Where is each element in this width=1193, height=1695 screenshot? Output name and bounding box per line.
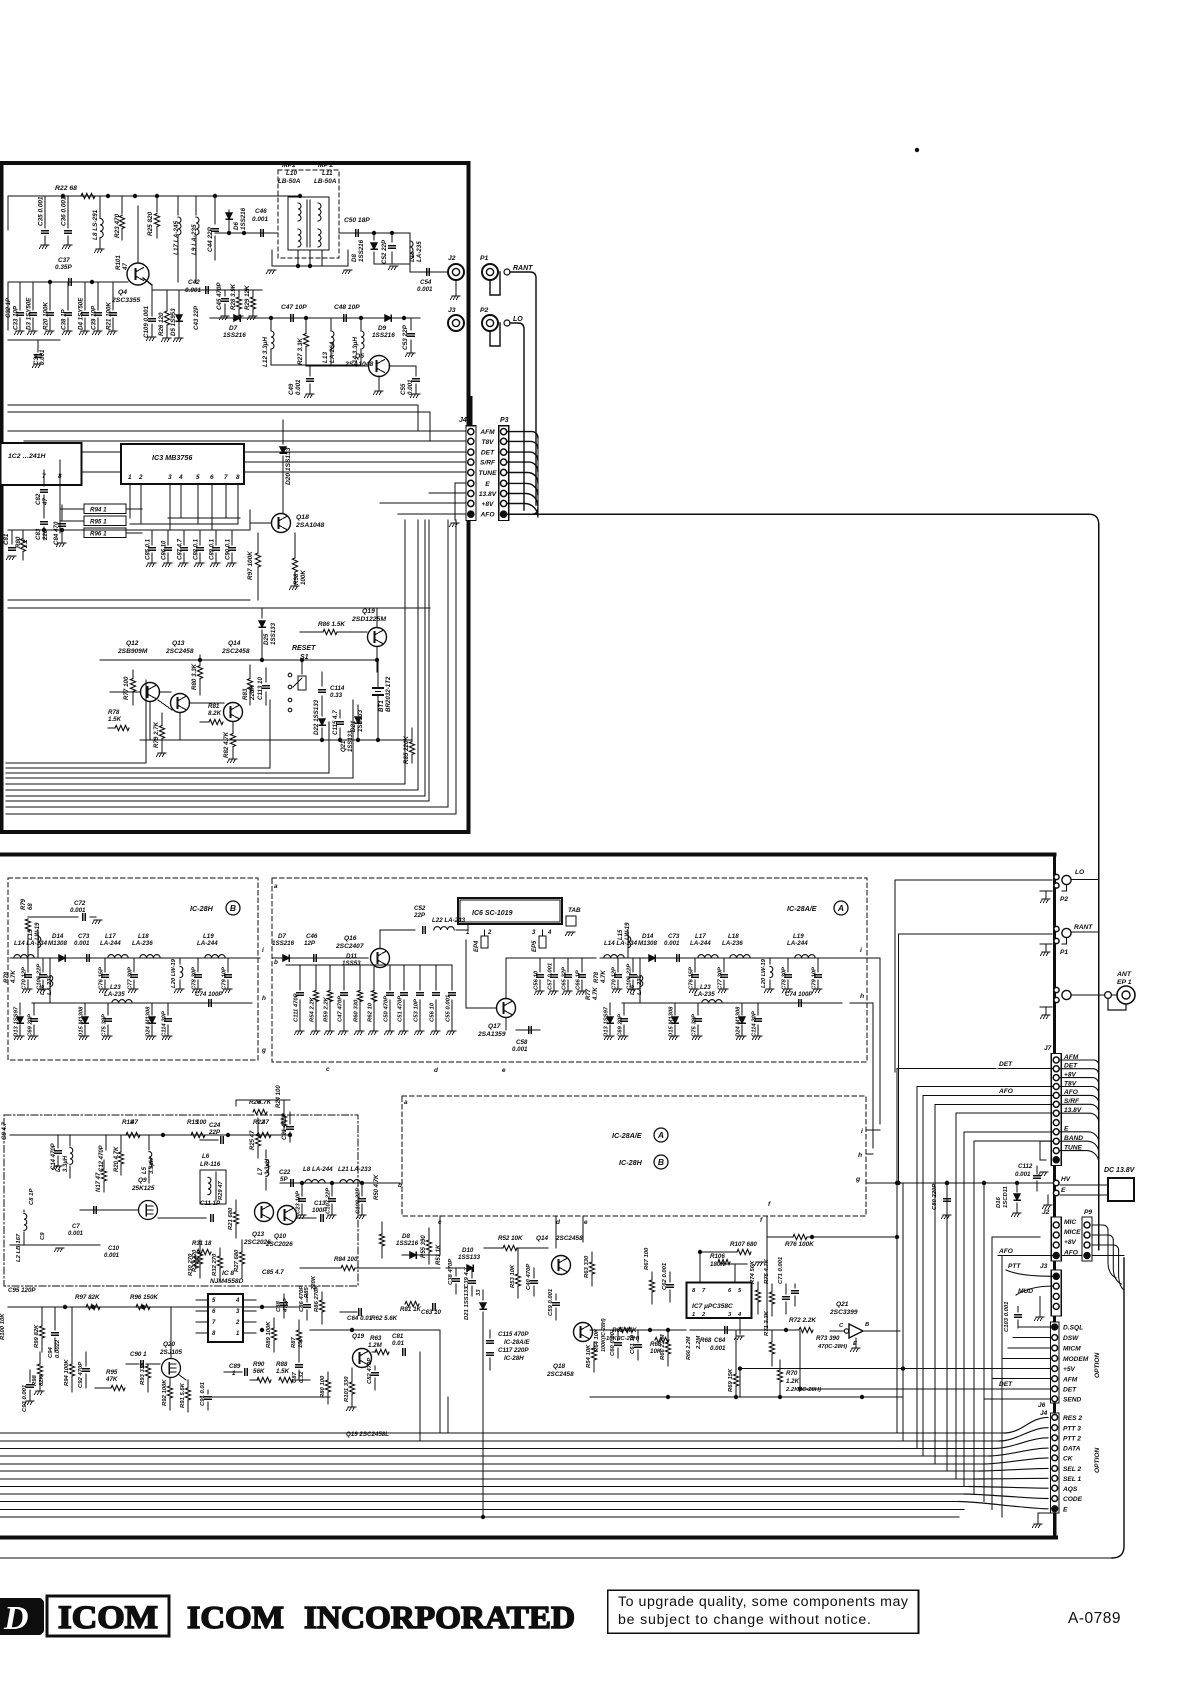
svg-text:D10: D10 — [462, 1247, 474, 1254]
svg-text:+8V: +8V — [1064, 1239, 1077, 1246]
svg-text:1: 1 — [128, 474, 132, 481]
svg-text:R73 390: R73 390 — [816, 1335, 840, 1342]
svg-text:SEL 1: SEL 1 — [1063, 1476, 1082, 1483]
svg-text:D16: D16 — [996, 1196, 1002, 1208]
svg-text:BT1: BT1 — [378, 700, 385, 712]
svg-text:R85: R85 — [304, 1286, 310, 1298]
svg-text:E: E — [1063, 1506, 1068, 1513]
svg-text:LA-235: LA-235 — [637, 975, 643, 995]
svg-text:Q13: Q13 — [252, 1231, 265, 1238]
svg-text:R50 4.7K: R50 4.7K — [374, 1174, 380, 1200]
svg-text:d: d — [434, 1067, 439, 1074]
svg-text:P3: P3 — [500, 417, 509, 424]
svg-text:J4: J4 — [459, 417, 467, 424]
svg-text:C43 22P: C43 22P — [193, 305, 200, 330]
svg-text:C10: C10 — [108, 1246, 120, 1252]
svg-text:e: e — [584, 1219, 588, 1226]
svg-text:DET: DET — [481, 450, 495, 457]
svg-text:L17: L17 — [695, 933, 706, 940]
svg-text:IC-28H: IC-28H — [504, 1355, 524, 1362]
svg-text:R55 390: R55 390 — [421, 1235, 427, 1258]
svg-text:NJM4558D: NJM4558D — [210, 1278, 244, 1285]
svg-text:INCORPORATED: INCORPORATED — [304, 1599, 575, 1635]
svg-text:C54: C54 — [420, 279, 432, 286]
svg-text:22P: 22P — [413, 912, 426, 919]
svg-text:R27 3.3K: R27 3.3K — [297, 338, 304, 365]
svg-text:C40 470P: C40 470P — [526, 1264, 532, 1290]
svg-text:C46: C46 — [306, 933, 318, 940]
svg-text:D8: D8 — [351, 254, 358, 262]
svg-text:1SS216: 1SS216 — [240, 207, 247, 230]
svg-text:R24 100: R24 100 — [276, 1085, 282, 1108]
svg-text:R107 680: R107 680 — [730, 1241, 757, 1248]
svg-text:L19: L19 — [793, 933, 804, 940]
svg-text:P1: P1 — [480, 255, 489, 262]
svg-text:SEND: SEND — [1063, 1396, 1082, 1403]
svg-text:R81 1K: R81 1K — [400, 1306, 422, 1313]
svg-text:R20 4.7K: R20 4.7K — [114, 1146, 120, 1172]
svg-text:R62 5.6K: R62 5.6K — [371, 1315, 398, 1322]
svg-text:C82 470P: C82 470P — [367, 1358, 373, 1384]
svg-text:D9: D9 — [378, 325, 387, 332]
svg-text:R82 4.7K: R82 4.7K — [223, 731, 230, 758]
svg-text:E: E — [485, 481, 490, 488]
svg-text:LA-235: LA-235 — [47, 975, 53, 995]
svg-text:B: B — [658, 1157, 664, 1167]
svg-text:Q5: Q5 — [355, 353, 364, 360]
svg-text:2SC3355: 2SC3355 — [111, 297, 141, 304]
svg-text:AFO: AFO — [998, 1248, 1014, 1255]
svg-text:D15 M1308: D15 M1308 — [669, 1006, 675, 1037]
svg-text:0.35P: 0.35P — [55, 264, 72, 271]
svg-text:R77: R77 — [586, 988, 592, 1000]
svg-text:2SC2458: 2SC2458 — [165, 648, 194, 655]
svg-text:LA-244: LA-244 — [690, 940, 711, 947]
svg-text:+8V: +8V — [482, 501, 495, 508]
svg-text:D15 M1308: D15 M1308 — [79, 1006, 85, 1037]
svg-text:L16: L16 — [40, 984, 46, 995]
svg-text:R69 15K: R69 15K — [728, 1368, 734, 1392]
svg-text:Q14: Q14 — [536, 1235, 549, 1242]
svg-text:SEL 2: SEL 2 — [1063, 1466, 1082, 1473]
svg-text:1SS216: 1SS216 — [358, 239, 365, 262]
svg-text:C46: C46 — [255, 208, 267, 215]
svg-text:R71 3.3K: R71 3.3K — [764, 1310, 770, 1336]
svg-text:C55: C55 — [400, 383, 407, 395]
svg-text:LA-244: LA-244 — [100, 940, 121, 947]
svg-text:R60 330: R60 330 — [354, 999, 360, 1022]
svg-text:C53 10P: C53 10P — [414, 999, 420, 1022]
svg-text:R66 2.2M: R66 2.2M — [686, 1336, 692, 1360]
svg-text:47: 47 — [261, 1119, 269, 1126]
svg-text:R77 100: R77 100 — [123, 676, 130, 700]
svg-text:B: B — [865, 1322, 869, 1328]
svg-text:L12 3.3µH: L12 3.3µH — [262, 337, 269, 367]
svg-text:C50 470P: C50 470P — [384, 996, 390, 1022]
svg-text:C78 30P: C78 30P — [782, 967, 788, 990]
svg-text:D7: D7 — [229, 325, 238, 332]
svg-text:47(IC-28H): 47(IC-28H) — [817, 1344, 847, 1350]
svg-text:J3: J3 — [1040, 1263, 1048, 1270]
svg-text:RESET: RESET — [292, 645, 316, 652]
svg-text:R92 100K: R92 100K — [162, 1379, 168, 1406]
svg-text:2SC3399: 2SC3399 — [829, 1309, 858, 1316]
svg-text:R78: R78 — [108, 709, 120, 716]
svg-text:L23: L23 — [110, 984, 121, 991]
svg-text:J4: J4 — [1040, 1410, 1048, 1417]
svg-text:B: B — [230, 903, 236, 913]
svg-text:J6: J6 — [1038, 1402, 1046, 1409]
svg-text:1.2K: 1.2K — [786, 1378, 800, 1385]
svg-text:L2 LB-167: L2 LB-167 — [16, 1233, 22, 1262]
svg-text:C72: C72 — [74, 900, 86, 907]
svg-text:47: 47 — [42, 498, 49, 506]
svg-text:L3: L3 — [56, 1164, 62, 1172]
svg-text:c: c — [326, 1066, 330, 1073]
svg-text:D24 M1308: D24 M1308 — [736, 1006, 742, 1037]
svg-text:0.001: 0.001 — [74, 940, 90, 947]
svg-text:4.7K: 4.7K — [601, 970, 607, 984]
svg-text:2SD1225M: 2SD1225M — [351, 616, 386, 623]
svg-text:D11: D11 — [346, 953, 357, 960]
svg-text:C12 470P: C12 470P — [99, 1144, 105, 1172]
svg-text:C84 470: C84 470 — [53, 521, 60, 545]
svg-text:0.001: 0.001 — [68, 1231, 84, 1237]
svg-text:C75 39P: C75 39P — [692, 1014, 698, 1037]
svg-text:R94 100K: R94 100K — [64, 1359, 70, 1386]
svg-text:1: 1 — [466, 930, 470, 936]
svg-text:R63 330: R63 330 — [584, 1255, 590, 1278]
svg-text:J3: J3 — [448, 307, 456, 314]
svg-text:R79 2.7K: R79 2.7K — [153, 721, 160, 748]
svg-text:C75 39P: C75 39P — [102, 1014, 108, 1037]
svg-text:C79 10P: C79 10P — [812, 967, 818, 990]
svg-text:HV: HV — [1061, 1176, 1071, 1183]
svg-text:C39 10P: C39 10P — [91, 305, 98, 330]
svg-text:C63 10: C63 10 — [421, 1309, 442, 1316]
svg-text:C111 470P: C111 470P — [294, 993, 300, 1022]
svg-text:ICOM: ICOM — [187, 1599, 284, 1635]
svg-text:C89 0.1: C89 0.1 — [210, 538, 216, 560]
svg-text:R101 330: R101 330 — [344, 1376, 350, 1402]
svg-text:C94: C94 — [48, 1346, 54, 1358]
svg-text:MIC: MIC — [1064, 1219, 1076, 1226]
svg-text:1SS216: 1SS216 — [223, 332, 246, 339]
svg-text:R97 82K: R97 82K — [75, 1294, 100, 1301]
svg-text:C115 470P: C115 470P — [498, 1331, 529, 1338]
svg-text:OPTION: OPTION — [1094, 1447, 1101, 1473]
svg-text:R52 10K: R52 10K — [498, 1235, 523, 1242]
svg-text:33: 33 — [476, 1289, 482, 1296]
svg-text:4.7K: 4.7K — [11, 970, 17, 984]
svg-text:A: A — [657, 1130, 664, 1140]
svg-text:C61 10: C61 10 — [630, 1334, 636, 1354]
svg-text:R30 270: R30 270 — [188, 1253, 194, 1276]
svg-text:D20 1SS133: D20 1SS133 — [285, 447, 292, 485]
svg-text:R98: R98 — [293, 573, 300, 585]
svg-text:IC-28A/E: IC-28A/E — [787, 904, 817, 913]
svg-text:1SS53: 1SS53 — [342, 960, 361, 967]
svg-text:R99 82K: R99 82K — [34, 1324, 40, 1348]
svg-text:R94 1: R94 1 — [90, 507, 107, 514]
svg-text:R21 100K: R21 100K — [106, 302, 113, 330]
svg-text:L7: L7 — [258, 1167, 264, 1175]
svg-text:N17 47: N17 47 — [96, 1172, 102, 1192]
svg-text:2SC2026: 2SC2026 — [243, 1239, 271, 1246]
svg-text:8: 8 — [212, 1331, 216, 1337]
svg-text:A: A — [837, 903, 844, 913]
svg-text:C52 22P: C52 22P — [381, 239, 388, 264]
svg-text:L11: L11 — [322, 170, 333, 177]
svg-text:C47 470P: C47 470P — [338, 996, 344, 1022]
svg-text:R96 150K: R96 150K — [130, 1294, 158, 1301]
svg-text:LA-244: LA-244 — [787, 940, 808, 947]
svg-text:0.001: 0.001 — [512, 1046, 528, 1053]
svg-text:b: b — [274, 959, 278, 966]
svg-text:R20 100K: R20 100K — [43, 302, 50, 330]
svg-text:PTT: PTT — [1008, 1263, 1021, 1270]
svg-text:C71 0.001: C71 0.001 — [778, 1257, 784, 1284]
svg-text:R75 4.7K: R75 4.7K — [764, 1258, 770, 1284]
svg-text:LO: LO — [513, 316, 523, 323]
svg-text:R87: R87 — [291, 1336, 297, 1348]
svg-text:0.01: 0.01 — [392, 1340, 405, 1347]
svg-text:C58: C58 — [516, 1039, 528, 1046]
svg-text:8: 8 — [236, 474, 240, 481]
svg-text:D13 1SS97: D13 1SS97 — [604, 1006, 610, 1037]
svg-text:L19: L19 — [203, 933, 214, 940]
svg-text:L18: L18 — [728, 933, 739, 940]
svg-text:0.33: 0.33 — [330, 692, 343, 699]
svg-text:R29 47: R29 47 — [218, 1181, 224, 1200]
svg-text:68: 68 — [28, 903, 34, 910]
svg-text:1: 1 — [236, 1331, 240, 1337]
svg-text:R91 5.6K: R91 5.6K — [180, 1382, 186, 1408]
svg-text:L13: L13 — [322, 352, 329, 363]
svg-text:d: d — [556, 1219, 561, 1226]
svg-text:LA-264: LA-264 — [329, 341, 336, 363]
svg-text:C90 1: C90 1 — [130, 1351, 147, 1358]
svg-text:Q19 2SC2458L: Q19 2SC2458L — [346, 1431, 389, 1438]
svg-text:LA-235: LA-235 — [104, 991, 125, 998]
svg-text:25K125: 25K125 — [131, 1185, 155, 1192]
svg-text:1.2M: 1.2M — [368, 1342, 383, 1349]
svg-text:D21 1SS133: D21 1SS133 — [464, 1286, 470, 1320]
svg-text:100K: 100K — [300, 570, 307, 585]
svg-text:6: 6 — [210, 474, 214, 481]
svg-text:R59 2.2K: R59 2.2K — [324, 996, 330, 1022]
svg-text:D5 1S953: D5 1S953 — [170, 308, 177, 336]
svg-text:L8 LS-291: L8 LS-291 — [92, 209, 99, 240]
svg-text:C107 22P: C107 22P — [326, 1188, 332, 1214]
svg-text:Q17: Q17 — [488, 1023, 501, 1030]
svg-text:R72 2.2K: R72 2.2K — [789, 1317, 816, 1324]
svg-text:To upgrade quality, some compo: To upgrade quality, some components may — [618, 1594, 909, 1610]
svg-text:L8 LA-244: L8 LA-244 — [303, 1166, 333, 1173]
svg-text:0.0022: 0.0022 — [55, 1339, 61, 1358]
svg-text:L17 LA-245: L17 LA-245 — [173, 220, 180, 255]
svg-text:MP 2: MP 2 — [318, 162, 333, 169]
svg-text:D25: D25 — [263, 633, 270, 645]
svg-text:C76 15P: C76 15P — [99, 967, 105, 990]
svg-text:6: 6 — [728, 1288, 732, 1294]
svg-text:Q16: Q16 — [344, 935, 357, 942]
svg-text:R54 10K: R54 10K — [586, 1344, 592, 1368]
svg-text:AFM: AFM — [479, 429, 495, 436]
svg-text:L5: L5 — [142, 1166, 148, 1174]
svg-text:5: 5 — [212, 1298, 216, 1304]
svg-text:PTT 2: PTT 2 — [1063, 1435, 1081, 1442]
svg-text:R76 100K: R76 100K — [785, 1241, 814, 1248]
svg-text:C81: C81 — [392, 1333, 404, 1340]
svg-text:C85 4.7: C85 4.7 — [262, 1269, 284, 1276]
svg-text:M1308: M1308 — [48, 940, 67, 947]
svg-text:R63: R63 — [370, 1335, 382, 1342]
svg-text:C69 20P: C69 20P — [618, 1014, 624, 1037]
svg-text:h: h — [262, 995, 266, 1002]
svg-text:AQS: AQS — [1062, 1486, 1078, 1493]
svg-text:R100 10K: R100 10K — [0, 1313, 6, 1340]
svg-text:R23 470: R23 470 — [114, 213, 121, 238]
svg-text:a: a — [274, 883, 278, 890]
svg-text:MICE: MICE — [1064, 1229, 1081, 1236]
svg-text:IC3 MB3756: IC3 MB3756 — [152, 453, 193, 462]
svg-text:AFO: AFO — [480, 512, 496, 519]
svg-text:J7: J7 — [1044, 1045, 1052, 1052]
svg-text:RANT: RANT — [1074, 924, 1093, 931]
svg-text:2SA1048: 2SA1048 — [295, 522, 325, 529]
svg-text:LA-235: LA-235 — [694, 991, 715, 998]
svg-text:2SC2458: 2SC2458 — [221, 648, 250, 655]
svg-text:Q12: Q12 — [126, 640, 139, 647]
svg-text:L14 LA-234: L14 LA-234 — [604, 940, 638, 947]
svg-text:1SS216: 1SS216 — [372, 332, 395, 339]
svg-text:C24: C24 — [209, 1122, 221, 1129]
svg-text:be subject to change without n: be subject to change without notice. — [618, 1612, 871, 1628]
svg-text:LA-236: LA-236 — [132, 940, 153, 947]
svg-text:D4 1SY50E: D4 1SY50E — [78, 297, 85, 330]
svg-text:R95: R95 — [106, 1369, 118, 1376]
svg-text:R62 10: R62 10 — [368, 1002, 374, 1022]
svg-text:PTT 3: PTT 3 — [1063, 1425, 1081, 1432]
svg-text:8.2K: 8.2K — [208, 710, 222, 717]
svg-text:1SS216: 1SS216 — [272, 940, 295, 947]
svg-text:C81: C81 — [3, 533, 10, 545]
svg-text:EP4: EP4 — [474, 940, 480, 952]
svg-text:C23 10P: C23 10P — [296, 1191, 302, 1214]
svg-text:IC6 SC-1019: IC6 SC-1019 — [472, 910, 513, 917]
svg-text:IC-28A/E: IC-28A/E — [612, 1131, 642, 1140]
svg-text:C45 470P: C45 470P — [216, 282, 223, 310]
svg-text:L20 LW-19: L20 LW-19 — [761, 958, 767, 988]
svg-text:i: i — [860, 947, 862, 954]
svg-text:R64 10K: R64 10K — [594, 1328, 600, 1352]
svg-text:DATA: DATA — [1063, 1446, 1081, 1453]
svg-text:C39 4.7: C39 4.7 — [464, 1267, 470, 1288]
svg-text:R97 100K: R97 100K — [247, 551, 254, 580]
svg-text:C32 1P: C32 1P — [6, 297, 12, 318]
svg-text:L23: L23 — [700, 984, 711, 991]
svg-text:Q10: Q10 — [274, 1233, 287, 1240]
svg-text:C76 15P: C76 15P — [689, 967, 695, 990]
svg-text:R21 680: R21 680 — [228, 1207, 234, 1230]
svg-text:R27 680: R27 680 — [234, 1249, 240, 1272]
svg-text:2SB909M: 2SB909M — [117, 648, 148, 655]
svg-text:3.3µH: 3.3µH — [63, 1155, 69, 1172]
svg-text:TUNE: TUNE — [479, 470, 498, 477]
svg-text:6: 6 — [212, 1309, 216, 1315]
svg-text:LA-236: LA-236 — [722, 940, 743, 947]
svg-text:C50 18P: C50 18P — [344, 217, 370, 224]
svg-text:P1: P1 — [1060, 949, 1068, 956]
svg-text:C36 0.001: C36 0.001 — [61, 196, 68, 226]
svg-text:e: e — [502, 1067, 506, 1074]
svg-text:DSW: DSW — [1063, 1335, 1079, 1342]
svg-text:AFO: AFO — [998, 1088, 1014, 1095]
svg-text:L7 LB-W: L7 LB-W — [0, 214, 4, 240]
svg-text:LW-19: LW-19 — [625, 922, 631, 940]
svg-text:AFM: AFM — [1062, 1376, 1078, 1383]
svg-text:C33 10P: C33 10P — [13, 305, 20, 330]
svg-text:C112: C112 — [1018, 1163, 1033, 1170]
svg-text:C108 22P: C108 22P — [356, 1188, 362, 1214]
svg-text:C65 22P: C65 22P — [562, 967, 568, 990]
svg-text:C37: C37 — [58, 257, 70, 264]
svg-text:0.001: 0.001 — [710, 1345, 726, 1352]
svg-text:C53 22P: C53 22P — [402, 324, 409, 350]
svg-text:C70 12P: C70 12P — [612, 967, 618, 990]
svg-text:R83: R83 — [242, 688, 249, 700]
svg-text:C117 220P: C117 220P — [498, 1347, 529, 1354]
svg-text:R101: R101 — [115, 255, 122, 270]
svg-text:C56 10: C56 10 — [534, 970, 540, 990]
svg-text:C48 10P: C48 10P — [334, 304, 360, 311]
svg-text:D.SQL: D.SQL — [1063, 1325, 1083, 1332]
svg-text:D24 M1308: D24 M1308 — [146, 1006, 152, 1037]
svg-text:C64: C64 — [714, 1337, 726, 1344]
svg-text:LB-50A: LB-50A — [278, 178, 301, 185]
svg-text:Q19: Q19 — [352, 1333, 365, 1340]
svg-text:0.001: 0.001 — [104, 1253, 120, 1259]
svg-text:47K: 47K — [105, 1376, 118, 1383]
svg-text:C92 470P: C92 470P — [78, 1362, 84, 1388]
svg-text:LB-50A: LB-50A — [314, 178, 337, 185]
svg-text:IC7 µPC358C: IC7 µPC358C — [692, 1303, 733, 1310]
svg-text:IC-28H: IC-28H — [190, 904, 214, 913]
svg-text:Q20: Q20 — [163, 1341, 176, 1348]
svg-text:1: 1 — [232, 1370, 236, 1377]
svg-text:C74 100P: C74 100P — [195, 991, 223, 998]
svg-text:Q21: Q21 — [341, 740, 347, 752]
svg-text:R89 100K: R89 100K — [266, 1321, 272, 1348]
svg-text:C51 470P: C51 470P — [398, 996, 404, 1022]
svg-text:C44 22P: C44 22P — [207, 226, 214, 252]
svg-text:5: 5 — [738, 1288, 742, 1294]
svg-text:DET: DET — [1063, 1386, 1077, 1393]
svg-text:12P: 12P — [304, 940, 316, 947]
svg-text:R78: R78 — [594, 971, 600, 983]
svg-text:LW-19: LW-19 — [35, 922, 41, 940]
svg-text:A-0789: A-0789 — [1068, 1610, 1121, 1627]
svg-text:C78 30P: C78 30P — [192, 967, 198, 990]
svg-text:C114 20P: C114 20P — [752, 1011, 758, 1037]
svg-text:C73: C73 — [78, 933, 90, 940]
svg-text:2SC2458: 2SC2458 — [555, 1235, 583, 1242]
svg-text:h: h — [860, 993, 864, 1000]
svg-text:g: g — [855, 1176, 861, 1183]
svg-text:IC-28A/E: IC-28A/E — [504, 1339, 530, 1346]
svg-text:S/RF: S/RF — [480, 460, 496, 467]
